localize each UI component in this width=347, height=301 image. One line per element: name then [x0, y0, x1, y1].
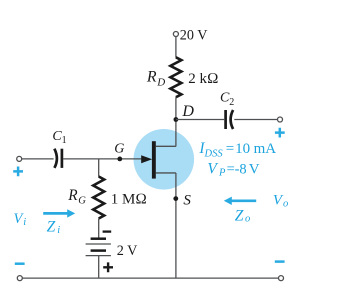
node S [173, 196, 178, 201]
wire input to C1 [22, 158, 54, 160]
wire C2 to output terminal [234, 119, 277, 121]
svg-text:S: S [183, 192, 191, 208]
svg-text:G: G [78, 195, 86, 206]
input terminal [17, 156, 22, 161]
node G [117, 157, 122, 162]
wire RD to drain bend through node D [175, 97, 177, 146]
wire source down to rail [175, 173, 177, 278]
JFET highlight circle [134, 129, 195, 190]
svg-text:R: R [146, 69, 157, 86]
resistor RD [170, 57, 181, 97]
svg-text:V: V [207, 160, 218, 177]
svg-text:=: = [226, 141, 234, 157]
svg-text:2 kΩ: 2 kΩ [188, 71, 218, 87]
wire top terminal to RD [175, 37, 177, 58]
battery plus sign [103, 262, 113, 272]
plus output (blue) [275, 128, 285, 138]
svg-text:2: 2 [229, 97, 234, 108]
minus bottom-right (blue) [275, 260, 285, 263]
wire battery to rail [98, 256, 100, 279]
svg-text:10: 10 [235, 141, 250, 157]
node D [174, 117, 179, 122]
svg-text:mA: mA [254, 141, 277, 157]
JFET drain lead [156, 145, 176, 147]
svg-text:R: R [67, 187, 78, 204]
svg-text:o: o [245, 214, 250, 225]
JFET gate arrowhead [141, 155, 152, 163]
wire C1 to gate [63, 158, 142, 160]
svg-text:D: D [181, 103, 194, 120]
wire gate junction down to RG [98, 159, 100, 177]
capacitor C2 [224, 110, 227, 129]
wire RG to battery [98, 219, 100, 238]
wire D to C2 [176, 119, 224, 121]
svg-text:P: P [218, 168, 226, 179]
svg-text:2 V: 2 V [117, 243, 138, 259]
minus bottom-left (blue) [15, 262, 25, 265]
svg-text:1: 1 [62, 135, 67, 146]
svg-text:Z: Z [47, 218, 56, 235]
terminal output [278, 117, 283, 122]
svg-text:G: G [114, 142, 124, 157]
battery 2V [91, 237, 106, 240]
JFET source lead [156, 172, 176, 174]
svg-text:-8: -8 [235, 161, 247, 177]
terminal bottom-left [17, 276, 22, 281]
battery minus sign [103, 230, 112, 232]
arrow Zi (blue) [43, 212, 68, 215]
svg-text:1 MΩ: 1 MΩ [111, 191, 147, 207]
svg-text:DSS: DSS [204, 149, 224, 160]
svg-text:20 V: 20 V [180, 27, 208, 43]
capacitor C1 [54, 149, 57, 168]
svg-text:Z: Z [235, 207, 244, 224]
bottom rail [22, 277, 278, 279]
plus input (blue) [13, 167, 23, 177]
svg-text:V: V [249, 162, 260, 178]
terminal 20V [173, 32, 178, 37]
svg-text:i: i [57, 225, 60, 236]
resistor RG [93, 177, 104, 219]
svg-text:o: o [283, 198, 288, 209]
svg-text:D: D [156, 76, 165, 88]
arrow Zo (blue) [231, 199, 256, 202]
svg-text:i: i [23, 217, 26, 228]
terminal bottom-right [279, 276, 284, 281]
JFET channel bar [152, 141, 156, 178]
svg-text:=: = [227, 161, 235, 177]
